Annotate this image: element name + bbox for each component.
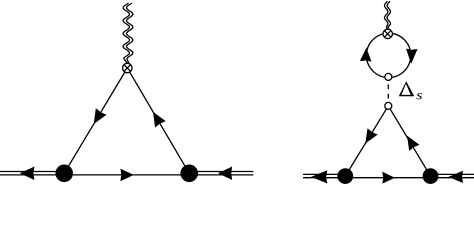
- left triangle left side quark line: [64, 68, 127, 173]
- arrow on internal quark bottom line (right diagram): [382, 172, 395, 184]
- right vertex blob (bottom-right dot): [180, 165, 198, 183]
- label Delta_s: [399, 81, 415, 96]
- arrow on left triangle left side (pointing down-left): [94, 108, 107, 124]
- arrow on right triangle left side (pointing down-left): [365, 128, 377, 143]
- baryon second line right external (right diagram): [431, 173, 474, 175]
- crossed-circle photon vertex (right diagram, on loop top): [383, 29, 392, 38]
- arrow on right external baryon line (right diagram): [448, 171, 463, 183]
- arrow on left external baryon line (left diagram): [20, 167, 35, 181]
- open circle vertex at triangle apex: [385, 102, 392, 109]
- baryon second line left external (left diagram): [0, 171, 64, 173]
- open circle vertex at loop bottom: [385, 73, 392, 80]
- baryon main line (left diagram, full bottom): [0, 174, 253, 176]
- arrow on right external baryon line (left diagram): [218, 167, 232, 181]
- arrow on left triangle right side (pointing up toward apex): [153, 112, 166, 128]
- meson loop circle: [366, 33, 410, 77]
- baryon second line right external (left diagram): [189, 171, 253, 173]
- dashed sigma propagator line: [387, 84, 389, 98]
- arrow on loop right (pointing down): [406, 49, 418, 64]
- left vertex blob (bottom-left dot): [55, 165, 73, 183]
- triangle right side quark line (right diagram): [388, 106, 430, 176]
- photon double wavy line (right diagram): [385, 1, 391, 29]
- photon double wavy line (left diagram): [123, 3, 133, 64]
- arrow on left external baryon line (right diagram): [311, 170, 327, 183]
- arrow on right triangle right side (pointing up toward apex): [407, 136, 419, 151]
- baryon main line (right diagram, full bottom): [303, 177, 474, 179]
- arrow on internal quark bottom line (left diagram): [120, 169, 133, 182]
- crossed-circle photon vertex (left diagram apex): [123, 63, 132, 72]
- left vertex blob (right diagram): [337, 168, 353, 184]
- baryon second line left external (right diagram): [303, 173, 345, 175]
- right vertex blob (right diagram): [423, 168, 439, 184]
- left triangle right side quark line: [127, 68, 189, 173]
- arrow on loop left (pointing up): [360, 48, 372, 62]
- triangle left side quark line (right diagram): [345, 106, 388, 176]
